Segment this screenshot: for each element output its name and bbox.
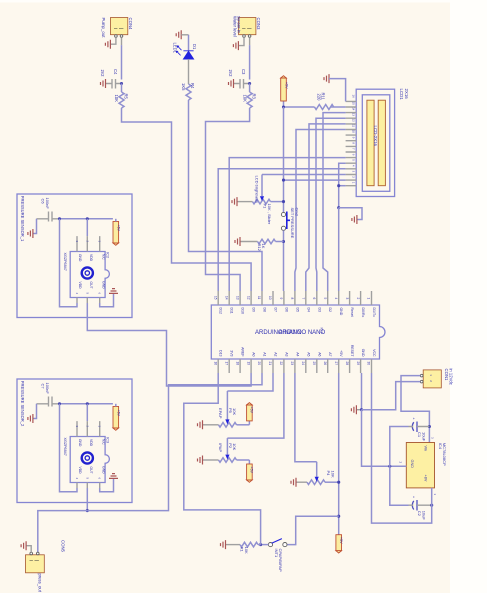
wire R3 to Arduino pin13 D10	[206, 108, 250, 291]
svg-text:7: 7	[301, 298, 305, 300]
node switch feed	[337, 515, 340, 518]
wire +5V to INT1 switch	[287, 516, 339, 544]
wire tap to D13	[184, 373, 261, 545]
ground (Arduino pin29 / supply)	[351, 373, 361, 414]
svg-text:P5: P5	[228, 408, 233, 414]
wire CON1 pin1 +12V to regulator Vin	[401, 376, 429, 443]
power flag +5V (main rail)	[281, 76, 289, 107]
svg-text:100nF: 100nF	[45, 198, 50, 210]
resistor R12 1K	[241, 239, 284, 251]
node gnd branch	[337, 206, 340, 209]
svg-text:12: 12	[246, 296, 250, 300]
svg-text:OUT: OUT	[89, 467, 93, 474]
wire CON3 pin2 down	[249, 37, 251, 45]
svg-text:19: 19	[246, 362, 250, 366]
svg-text:+5V: +5V	[250, 467, 254, 474]
wire switch to R12 node	[283, 230, 285, 291]
svg-text:10uF: 10uF	[422, 511, 427, 521]
svg-text:GND: GND	[102, 466, 106, 474]
svg-text:+5V: +5V	[339, 537, 343, 544]
svg-text:15: 15	[213, 296, 217, 300]
svg-text:ARDUINO NANO: ARDUINO NANO	[279, 330, 326, 336]
svg-text:10uF: 10uF	[422, 432, 427, 442]
node R1/tap	[259, 543, 262, 546]
ground (P1)	[232, 197, 237, 206]
svg-text:IC1: IC1	[320, 328, 324, 334]
wire IC3 pin5 OUT to A1	[86, 488, 88, 511]
svg-text:10K: 10K	[330, 471, 335, 478]
potentiometer P2 10K IPAP	[203, 438, 249, 462]
wire sensor2 out to CON5	[38, 511, 88, 553]
capacitor C2 10uF	[409, 496, 432, 520]
svg-text:1: 1	[367, 298, 371, 300]
Arduino bottom pin labels	[219, 345, 376, 358]
ground (LCD)	[339, 208, 362, 224]
block PRESSURE SENSOR_1	[17, 194, 132, 318]
svg-text:LCD-2X16: LCD-2X16	[373, 126, 378, 147]
LCD1 2X16 module	[356, 89, 409, 197]
wire LED to R4	[188, 59, 190, 84]
svg-text:D11: D11	[230, 308, 234, 314]
svg-text:2X16: 2X16	[404, 89, 409, 100]
resistor R5 10K	[114, 92, 128, 108]
svg-text:18: 18	[235, 362, 239, 366]
wire switch to R1 node	[261, 544, 269, 546]
wire +5V rail	[338, 373, 340, 535]
svg-text:IC4: IC4	[438, 443, 443, 450]
ground (C3)	[229, 79, 234, 88]
node VDD pin2	[86, 217, 89, 220]
IC2 pin numbers	[75, 241, 102, 295]
wire P1 wiper to LCD pin3 VO	[262, 174, 346, 176]
svg-text:11: 11	[352, 124, 356, 127]
svg-text:CON5: CON5	[61, 540, 66, 553]
svg-text:D0/Rx: D0/Rx	[361, 308, 365, 318]
svg-text:PRESSURE SENSOR_2: PRESSURE SENSOR_2	[20, 381, 25, 427]
node R11/+5V junction	[282, 105, 285, 108]
wire +5V feed	[60, 403, 88, 405]
ic IC2 XGZP6847	[63, 252, 111, 298]
switch INT1 CPAP/BIPAP	[268, 539, 287, 572]
svg-text:R1: R1	[240, 547, 245, 553]
svg-text:14: 14	[352, 107, 356, 111]
wire CON4 pin2 down	[121, 37, 123, 45]
wire regulator pin1 out to Arduino VCC pin30	[372, 373, 432, 523]
wire LCD pin5 RW to pin1 GND	[339, 163, 346, 208]
node Vout / C2	[430, 504, 433, 507]
svg-text:220: 220	[316, 94, 321, 102]
svg-text:INT1: INT1	[274, 549, 279, 558]
node switch/R12	[282, 240, 285, 243]
svg-text:D4: D4	[306, 308, 310, 313]
Arduino top pin stubs	[218, 291, 371, 305]
LED D1	[172, 43, 196, 60]
svg-text:+5V: +5V	[117, 410, 121, 417]
svg-text:VDD: VDD	[89, 254, 93, 262]
svg-text:GND: GND	[78, 439, 82, 447]
wire +5V to pin2 VDD	[86, 404, 88, 421]
svg-text:11: 11	[257, 296, 261, 300]
resistor R1 10K	[226, 542, 261, 554]
svg-text:CON1: CON1	[444, 369, 449, 382]
resistor R11 220 (LCD pin15)	[284, 93, 346, 110]
svg-text:VCC: VCC	[372, 349, 376, 357]
svg-text:EPAP: EPAP	[218, 408, 223, 419]
svg-text:N.C: N.C	[102, 439, 106, 445]
IC3 pin stubs bottom	[77, 483, 100, 489]
wire gnd rail to regulator pin2	[362, 410, 407, 467]
svg-text:D8: D8	[263, 308, 267, 313]
svg-text:R12: R12	[257, 244, 262, 252]
svg-text:20: 20	[257, 362, 261, 366]
capacitor C7 100nF	[37, 383, 60, 407]
svg-text:10K , Slider: 10K , Slider	[267, 204, 272, 225]
IC2 pin stubs bottom	[77, 298, 100, 304]
connector CON4	[101, 18, 133, 39]
svg-text:Vin: Vin	[424, 446, 428, 451]
power flag +5V (sensor 2)	[113, 404, 121, 431]
svg-text:sensor in: sensor in	[237, 16, 242, 34]
svg-text:27: 27	[334, 362, 338, 366]
svg-text:+: +	[411, 418, 415, 420]
potentiometer P1 10K LCD brightness	[238, 175, 284, 225]
svg-text:2n2: 2n2	[100, 70, 105, 78]
svg-text:23: 23	[290, 362, 294, 366]
wire gnd to LED	[188, 35, 190, 51]
svg-text:6: 6	[312, 298, 316, 300]
Arduino top pin labels	[219, 308, 376, 318]
svg-text:3: 3	[345, 298, 349, 300]
ground (CON3 pin1)	[233, 37, 244, 50]
svg-text:P4: P4	[326, 471, 331, 477]
svg-text:+5V: +5V	[250, 407, 254, 414]
wire LCD pin14 D7 to Arduino pin5 D2	[323, 113, 346, 291]
node rail/P1	[282, 200, 285, 203]
svg-text:A5: A5	[306, 352, 310, 356]
svg-text:100nF: 100nF	[45, 383, 50, 395]
wire LCD pin4 RS to Arduino pin15 D12	[218, 169, 345, 291]
svg-text:D1: D1	[192, 44, 197, 50]
svg-text:10K: 10K	[242, 95, 247, 103]
svg-text:D10: D10	[241, 308, 245, 314]
svg-text:2: 2	[356, 298, 360, 300]
svg-text:A3: A3	[284, 352, 288, 356]
svg-text:C2: C2	[417, 511, 422, 517]
svg-text:9: 9	[279, 298, 283, 300]
wire LCD gnd rail to Arduino pin4 GND	[338, 208, 340, 291]
svg-text:A6: A6	[317, 352, 321, 356]
node C4/R5 junction	[120, 82, 123, 85]
svg-text:16: 16	[213, 362, 217, 366]
node P4/rail	[337, 481, 340, 484]
svg-text:D3: D3	[317, 308, 321, 313]
connector CON1 in 12Vdc	[420, 369, 453, 388]
svg-text:10K: 10K	[232, 443, 237, 450]
ic IC3 XGZP6847	[63, 437, 111, 483]
ground (C4)	[101, 79, 106, 88]
block PRESSURE SENSOR_2	[17, 379, 132, 503]
svg-text:CPAP/BIPAP: CPAP/BIPAP	[278, 549, 283, 573]
svg-text:GND: GND	[339, 308, 343, 316]
svg-text:in 12Vdc: in 12Vdc	[448, 369, 453, 385]
svg-text:P2: P2	[228, 443, 233, 449]
svg-text:CON3: CON3	[256, 18, 261, 31]
svg-text:D7: D7	[274, 308, 278, 313]
svg-text:OUT: OUT	[89, 282, 93, 289]
svg-text:GND: GND	[410, 460, 414, 469]
svg-text:D6: D6	[284, 308, 288, 313]
svg-text:2n2: 2n2	[228, 70, 233, 78]
svg-text:D13: D13	[219, 350, 223, 356]
ground (IC2 pin6)	[100, 289, 118, 307]
connector CON5	[26, 540, 66, 593]
svg-text:RESET: RESET	[350, 345, 354, 358]
ground (CON5 pin1)	[21, 541, 31, 552]
svg-text:A2: A2	[274, 352, 278, 356]
svg-text:15: 15	[352, 102, 356, 106]
svg-text:R4: R4	[190, 83, 195, 89]
potentiometer P4 10K	[297, 462, 339, 485]
svg-text:+: +	[411, 496, 415, 498]
wire +5V rail down	[283, 107, 285, 212]
svg-text:30: 30	[367, 362, 371, 366]
svg-text:13: 13	[235, 296, 239, 300]
svg-text:LED1: LED1	[172, 43, 177, 54]
svg-text:VDD: VDD	[89, 439, 93, 447]
svg-text:+5V: +5V	[284, 82, 288, 89]
svg-text:3V3: 3V3	[230, 350, 234, 356]
svg-text:MC78L08CP: MC78L08CP	[442, 443, 447, 466]
ground (R1)	[221, 540, 226, 549]
wire LCD pin6 E to Arduino pin14 D11	[229, 158, 345, 291]
svg-text:24: 24	[301, 362, 305, 366]
IC2 pin names	[78, 254, 106, 289]
svg-text:+5V: +5V	[339, 350, 343, 357]
node sensor2 out	[86, 509, 89, 512]
wire +5V to pin4 VDD loop	[60, 404, 78, 492]
svg-text:10K: 10K	[232, 408, 237, 415]
resistor R3 10K	[242, 92, 256, 108]
svg-text:16: 16	[352, 95, 356, 99]
IC2 pin stubs top	[77, 236, 100, 251]
switch Cm2 SET PRESSURE	[281, 208, 299, 239]
wire +5V feed	[60, 218, 88, 220]
svg-text:D1/Tx: D1/Tx	[372, 308, 376, 318]
wire branch to C2 minus	[390, 466, 409, 505]
wire R5 to Arduino pin12 D9	[122, 108, 252, 291]
svg-text:12: 12	[352, 119, 356, 123]
resistor R4 1K5	[181, 83, 195, 100]
wire LCD pin12 D5 to Arduino pin7 D4	[306, 124, 346, 291]
svg-text:P1: P1	[262, 204, 267, 210]
power flag +5V (EPAP)	[247, 403, 254, 425]
wire LCD pin13 D6 to Arduino pin6 D3	[316, 118, 346, 291]
wire LCD pin11 D4 to Arduino pin8 D5	[295, 130, 346, 292]
svg-text:1K: 1K	[261, 244, 266, 249]
svg-text:PRESSURE SENSOR_1: PRESSURE SENSOR_1	[20, 196, 25, 242]
wire IC2 pin5 OUT to A0	[87, 303, 251, 386]
ic ARDUINO NANO IC1	[211, 305, 385, 359]
node Vin / C1	[428, 425, 431, 428]
svg-text:10K: 10K	[244, 547, 249, 554]
svg-text:C1: C1	[417, 432, 422, 438]
svg-text:A7: A7	[328, 352, 332, 356]
ground (P4)	[291, 478, 296, 487]
regulator IC4 MC78L08CP	[399, 437, 448, 496]
ground (R12)	[235, 237, 240, 246]
svg-text:N.C: N.C	[102, 254, 106, 260]
svg-text:IPAP: IPAP	[218, 443, 223, 452]
svg-text:GND: GND	[102, 281, 106, 289]
capacitor C4 2n2	[100, 69, 121, 89]
svg-text:SET PRESSURE: SET PRESSURE	[290, 208, 295, 239]
svg-text:XGZP6847: XGZP6847	[63, 438, 67, 456]
svg-text:VDD: VDD	[78, 467, 82, 475]
IC3 pin numbers	[75, 426, 102, 480]
ground (IC3 pin6)	[100, 474, 118, 492]
svg-text:17: 17	[224, 362, 228, 366]
Arduino top pin numbers 1-15	[213, 296, 370, 300]
svg-text:26: 26	[323, 362, 327, 366]
svg-text:R3: R3	[251, 94, 256, 100]
wire junction to R3	[249, 84, 251, 93]
svg-text:Reset: Reset	[350, 308, 354, 317]
wire gnd to CON1 pin2	[362, 382, 421, 410]
svg-text:GND: GND	[78, 254, 82, 262]
ground (CON4 pin1)	[105, 37, 116, 48]
node C6/VDD loop	[58, 217, 61, 220]
wire +5V to pin4 VDD loop	[60, 219, 78, 307]
svg-text:+5V: +5V	[117, 225, 121, 232]
node C7/VDD loop	[58, 402, 61, 405]
connector CON3	[232, 16, 261, 37]
ground (LED D1)	[176, 30, 188, 39]
capacitor C3 2n2	[228, 69, 249, 89]
wire junction to R5	[121, 84, 123, 93]
svg-text:D5: D5	[295, 308, 299, 313]
wire +5V to pin2 VDD	[86, 219, 88, 236]
svg-text:D12: D12	[219, 308, 223, 314]
svg-text:21: 21	[268, 362, 272, 366]
svg-text:D9: D9	[252, 308, 256, 313]
capacitor C6 100nF	[37, 198, 60, 222]
svg-text:C4: C4	[113, 69, 118, 75]
svg-text:1K5: 1K5	[181, 83, 186, 91]
svg-text:press_out: press_out	[38, 574, 43, 593]
svg-text:25: 25	[312, 362, 316, 366]
svg-text:A1: A1	[263, 352, 267, 356]
wire R4 to Arduino pin11 D8	[189, 100, 263, 291]
wire branch to C1 minus	[390, 427, 409, 467]
svg-text:A0: A0	[252, 352, 256, 356]
node C3/R3 junction	[248, 82, 251, 85]
IC3 pin stubs top	[77, 421, 100, 436]
svg-text:D2: D2	[328, 308, 332, 313]
svg-text:C3: C3	[241, 69, 246, 75]
svg-text:A4: A4	[295, 352, 299, 356]
svg-text:28: 28	[345, 362, 349, 366]
svg-text:22: 22	[279, 362, 283, 366]
power flag +5V (IPAP)	[247, 460, 254, 482]
svg-text:13: 13	[352, 113, 356, 117]
IC3 pin names	[78, 439, 106, 474]
power flag +5V (rail end)	[336, 535, 343, 553]
ground (P5)	[198, 420, 203, 429]
capacitor C1 10uF	[409, 418, 430, 442]
svg-text:10K: 10K	[114, 95, 119, 103]
svg-text:Pump_out: Pump_out	[101, 18, 106, 39]
svg-text:CON4: CON4	[128, 18, 133, 31]
ground (C7)	[28, 404, 37, 423]
svg-text:29: 29	[356, 362, 360, 366]
node LCD pin1 gnd	[337, 184, 340, 187]
wire sensor2 out to A1	[87, 373, 262, 511]
svg-text:10: 10	[352, 130, 356, 134]
potentiometer P5 10K EPAP	[203, 391, 249, 427]
svg-text:4: 4	[334, 298, 338, 300]
svg-text:LCD1: LCD1	[399, 89, 404, 101]
ground (C6)	[28, 219, 37, 238]
node gnd pin29	[360, 408, 363, 411]
power flag +5V (sensor 1)	[113, 219, 121, 246]
svg-text:5: 5	[323, 298, 327, 300]
svg-text:LCD brightness: LCD brightness	[254, 176, 259, 204]
node rail/pin2	[282, 179, 285, 182]
wire P2 wiper to A3	[227, 373, 284, 438]
ground (LCD pin16 backlight)	[324, 74, 346, 101]
node VDD pin2	[86, 402, 89, 405]
svg-text:AREF: AREF	[241, 347, 245, 356]
svg-text:8: 8	[290, 298, 294, 300]
svg-text:GND: GND	[361, 349, 365, 357]
svg-text:R5: R5	[123, 94, 128, 100]
svg-text:C6: C6	[41, 199, 46, 205]
wire A4 to P4 wiper	[295, 373, 317, 462]
LCD pin stubs 1-16 with numbers	[346, 101, 357, 185]
wire P5 wiper to A2	[227, 373, 273, 391]
svg-text:+8V: +8V	[424, 475, 428, 482]
wire LCD pin2 VDD to rail	[284, 179, 346, 181]
svg-text:VDD: VDD	[78, 282, 82, 290]
svg-text:14: 14	[224, 296, 228, 300]
Arduino bottom pin stubs	[218, 359, 371, 373]
svg-text:10: 10	[268, 296, 272, 300]
svg-text:C7: C7	[41, 384, 46, 390]
Arduino bottom pin numbers 16-30	[213, 362, 370, 366]
node gnd / C1-C2 branch	[388, 465, 391, 468]
ground (P2)	[198, 456, 203, 465]
svg-text:XGZP6847: XGZP6847	[63, 253, 67, 271]
